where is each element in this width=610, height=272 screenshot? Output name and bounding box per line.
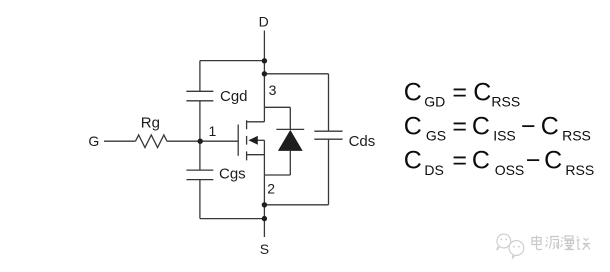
svg-text:D: D (259, 14, 269, 30)
svg-text:C: C (473, 78, 491, 106)
svg-text:C: C (541, 112, 559, 140)
svg-text:OSS: OSS (495, 162, 525, 178)
svg-text:1: 1 (209, 123, 217, 139)
svg-text:2: 2 (267, 181, 275, 197)
svg-text:Cgs: Cgs (219, 165, 246, 182)
svg-text:GD: GD (424, 94, 445, 110)
svg-text:S: S (260, 241, 269, 257)
svg-text:=: = (452, 147, 467, 175)
svg-text:DS: DS (424, 162, 443, 178)
svg-text:Cds: Cds (349, 133, 376, 150)
svg-text:C: C (472, 147, 490, 175)
svg-text:=: = (452, 78, 467, 106)
svg-text:RSS: RSS (565, 162, 594, 178)
svg-text:3: 3 (269, 82, 277, 98)
svg-text:−: − (521, 112, 536, 140)
svg-text:ISS: ISS (493, 128, 516, 144)
svg-text:GS: GS (426, 128, 446, 144)
svg-text:=: = (452, 112, 467, 140)
svg-text:−: − (526, 147, 541, 175)
svg-text:C: C (404, 147, 422, 175)
svg-text:Rg: Rg (141, 114, 160, 131)
svg-text:C: C (404, 112, 422, 140)
svg-text:C: C (544, 147, 562, 175)
svg-text:RSS: RSS (491, 94, 520, 110)
svg-text:G: G (88, 133, 99, 149)
svg-text:Cgd: Cgd (220, 88, 248, 105)
svg-text:RSS: RSS (562, 128, 591, 144)
svg-text:C: C (472, 112, 490, 140)
svg-text:C: C (404, 78, 422, 106)
